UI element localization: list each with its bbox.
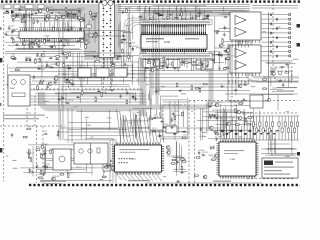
svg-text:4.7K: 4.7K [96, 58, 101, 60]
diode D13 [65, 79, 69, 81]
resistor R139 [121, 39, 123, 44]
svg-text:47u: 47u [44, 131, 47, 133]
capacitor C175 [134, 97, 136, 101]
capacitor C148 [191, 16, 193, 20]
bottom long bus 2 [60, 131, 190, 133]
IC201 pin name strip top [140, 20, 212, 25]
svg-text:4.7K560: 4.7K560 [172, 111, 180, 113]
left column wire [67, 108, 69, 143]
wire mesh QFP1 risers [120, 109, 156, 143]
transistor Q5 [77, 16, 81, 20]
wire mesh left IF 2 [61, 55, 145, 87]
capacitor C103 [12, 18, 14, 22]
capacitor C191 [42, 165, 46, 167]
resistor R219 [203, 83, 208, 85]
capacitor C189 [42, 172, 44, 176]
AGC part on shield 2 [89, 34, 94, 37]
capacitor C207 [209, 115, 211, 119]
svg-text:47u175: 47u175 [28, 153, 36, 155]
capacitor C186 [29, 168, 31, 172]
RGB resistor column cluster A [252, 116, 273, 140]
service note text 4 [264, 174, 290, 175]
IC201 bottom pin pads [142, 49, 206, 52]
wire mesh bottom left [20, 144, 112, 181]
diode D31 [173, 133, 177, 135]
IC301 inner text [224, 150, 244, 151]
capacitor C139 [70, 83, 74, 85]
CRT board dashed top step [234, 101, 236, 114]
resistor R138 [129, 42, 131, 47]
capacitor C205 [176, 180, 180, 182]
audio ladder wire [262, 14, 290, 16]
resistor R176 [42, 144, 44, 149]
capacitor C170 [223, 26, 225, 30]
capacitor C169 [216, 30, 218, 34]
svg-text:4.7K: 4.7K [80, 17, 85, 19]
transistor Q26 [203, 175, 207, 179]
nested bus trace [124, 18, 150, 62]
svg-text:10K500: 10K500 [271, 68, 279, 70]
resistor R200 [209, 114, 214, 116]
capacitor C150 [159, 13, 161, 17]
capacitor C132 [66, 67, 70, 69]
svg-text:IC301: IC301 [230, 159, 237, 161]
resistor R113 [79, 20, 84, 22]
svg-text:47u527: 47u527 [46, 7, 54, 9]
RGB bus bottom [252, 139, 299, 141]
main/CRT board dashed divider A [188, 101, 190, 184]
resistor R151 [184, 62, 189, 64]
capacitor C160 [151, 59, 155, 61]
reset IC box [150, 118, 163, 130]
transistor Q2 [61, 15, 65, 19]
resistor R214 [226, 58, 231, 60]
transistor Q4 [45, 18, 49, 22]
service note text 3 [264, 170, 282, 171]
resistor R181 [38, 177, 43, 179]
tuner antenna jack 2 [108, 1, 113, 6]
diode D18 [138, 16, 142, 18]
left vertical trunk 1 [58, 12, 60, 140]
resistor R148 [197, 64, 202, 66]
IC602 inner pins [232, 73, 259, 76]
service note text 2 [264, 167, 294, 168]
IC301 right wire 2 [261, 153, 297, 155]
resistor R110 [90, 10, 92, 15]
svg-text:2.2K: 2.2K [244, 82, 249, 84]
connector comb [40, 31, 54, 34]
capacitor C216 [243, 98, 245, 102]
IC601 inner pins [232, 40, 259, 43]
capacitor C176 [126, 91, 128, 95]
capacitor C123 [11, 30, 13, 34]
CRT board dashed divider B [194, 101, 196, 184]
audio dashed corner [273, 70, 293, 72]
IC201 top pin row [142, 24, 205, 34]
svg-text:SAW: SAW [10, 87, 15, 90]
resistor R195 [181, 161, 186, 163]
resistor R104 [47, 7, 49, 12]
capacitor C225 [243, 84, 247, 86]
svg-text:2.2K220: 2.2K220 [227, 56, 235, 58]
resistor R202 [194, 175, 199, 177]
bottom-right caption text [213, 181, 231, 182]
IC001 inner row of config dots 2 [119, 162, 128, 163]
top bus wire [118, 12, 250, 14]
transistor Q29 [227, 122, 231, 126]
resistor R149 [207, 61, 209, 66]
resistor R109 [92, 16, 94, 21]
resistor R122 [26, 59, 31, 61]
capacitor C201 [170, 126, 174, 128]
B+ bus wire [32, 80, 258, 82]
svg-text:10K674: 10K674 [131, 46, 139, 48]
diode D17 [154, 12, 158, 14]
resistor R136 [37, 85, 39, 90]
diode D25 [97, 90, 101, 92]
resistor R137 [126, 8, 128, 13]
svg-text:1K810: 1K810 [163, 124, 170, 126]
RGB array resistors dark [254, 130, 278, 134]
diode D19 [174, 17, 178, 19]
IC201 pin numbers top [142, 35, 205, 37]
svg-text:2.2K460: 2.2K460 [18, 7, 26, 9]
resistor R128 [63, 53, 68, 55]
transistor Q17 [48, 82, 52, 86]
capacitor C209 [215, 137, 217, 141]
IC101 body [19, 31, 84, 39]
resistor R208 [246, 123, 251, 125]
resistor R157 [154, 62, 156, 67]
resistor R127 [15, 69, 20, 71]
resistor R206 [235, 124, 240, 126]
resistor R203 [196, 157, 201, 159]
signal path rail (chroma) [156, 58, 159, 108]
resistor R119 [12, 38, 14, 43]
capacitor C174 [132, 95, 134, 99]
resistor R120 [44, 39, 46, 44]
svg-text:0.01874: 0.01874 [151, 67, 159, 69]
IC201 inner text smudge [146, 38, 199, 42]
resistor R185 [67, 173, 69, 178]
capacitor C109 [83, 18, 85, 22]
resistor R103 [56, 15, 58, 20]
main board dashed corner [163, 105, 188, 140]
signal list text row 1 [272, 87, 297, 88]
resistor R182 [28, 171, 33, 173]
diode D16 [205, 17, 209, 19]
svg-text:47u346: 47u346 [38, 66, 46, 68]
top bus wire [118, 10, 250, 12]
tuner shield shading [46, 4, 121, 60]
right edge terminal mark 1 [297, 24, 301, 28]
IC101 pin numbers [21, 31, 84, 32]
resistor R111 [33, 19, 35, 24]
resistor R207 [247, 117, 252, 119]
transistor Q25 [209, 126, 213, 130]
wire mesh left IF [6, 52, 145, 90]
resistor R150 [146, 62, 151, 64]
riser wire pair 3 [115, 140, 117, 183]
svg-text:10K763: 10K763 [196, 13, 204, 15]
tuner TU101 body [99, 3, 115, 58]
capacitor C203 [176, 160, 178, 164]
CRT board dashed top A [189, 100, 298, 102]
capacitor C114 [77, 10, 81, 12]
CRT socket box [250, 95, 263, 108]
transistor Q16 [54, 77, 58, 81]
resistor R156 [159, 67, 164, 69]
decoupling caps above IC301 [221, 130, 256, 135]
capacitor C118 [11, 29, 15, 31]
shield module Z101 box [74, 143, 108, 164]
diode D15 [160, 14, 164, 16]
diode D2 [30, 13, 34, 15]
IC001 bottom drop wires [117, 175, 162, 181]
transistor Q8 [80, 39, 84, 43]
capacitor C106 [20, 18, 24, 20]
svg-text:4.7K: 4.7K [209, 104, 214, 106]
bottom-left caption text 2 [44, 183, 62, 184]
capacitor C215 [198, 151, 200, 155]
diode D21 [201, 63, 205, 65]
capacitor C135 [46, 63, 48, 67]
transistor Q22 [166, 146, 170, 150]
svg-text:4.7K548: 4.7K548 [77, 38, 85, 40]
resistor R217 [191, 85, 193, 90]
tuner crossing wire 1 [85, 30, 126, 32]
resistor R197 [180, 159, 185, 161]
left vertical trunk 2 [62, 22, 64, 140]
capacitor C218 [278, 80, 282, 82]
IF output bus 4 [30, 104, 146, 106]
IC101 bottom pins [21, 39, 84, 42]
capacitor C210 [213, 114, 215, 118]
riser wire pair 2 [112, 140, 114, 183]
resistor R115 [93, 34, 98, 36]
svg-text:1K156: 1K156 [155, 89, 162, 91]
wire mesh top bus risers [138, 5, 224, 13]
svg-text:4.7K984: 4.7K984 [41, 144, 49, 146]
transistor Q12 [84, 41, 88, 45]
headphone jack parts [278, 71, 288, 75]
diode D32 [208, 106, 212, 108]
IC001 inner row of config dots [119, 158, 133, 159]
resistor R143 [176, 14, 181, 16]
CRT socket parts [267, 95, 278, 110]
annotation text speckle [6, 12, 299, 180]
svg-text:B+348: B+348 [40, 153, 47, 155]
capacitor C147 [122, 39, 126, 41]
capacitor C138 [37, 68, 41, 70]
diode D14 [122, 39, 126, 41]
IC001 top riser wires [117, 109, 164, 142]
resistor R144 [166, 17, 171, 19]
capacitor C115 [29, 42, 33, 44]
capacitor C128 [36, 52, 38, 56]
transistor Q11 [36, 42, 40, 46]
resistor R192 [174, 115, 176, 120]
resistor R213 [225, 58, 230, 60]
svg-text:100545: 100545 [43, 38, 51, 40]
wire mesh above IC301 [203, 99, 254, 139]
video delay box DL202 [196, 60, 213, 69]
capacitor C166 [166, 65, 168, 69]
capacitor C184 [57, 130, 59, 134]
signal path pipe (video bus) [42, 92, 146, 108]
resistor R123 [69, 52, 71, 57]
IC602 op-amp A [235, 49, 246, 58]
svg-text:2.2K: 2.2K [49, 149, 54, 151]
diode D24 [224, 16, 228, 18]
svg-text:0.01725: 0.01725 [77, 8, 85, 10]
capacitor C164 [199, 61, 203, 63]
capacitor C167 [218, 66, 220, 70]
IC301 top riser wires [221, 117, 253, 139]
ceramic filter CF202 box [96, 68, 109, 77]
capacitor C158 [217, 53, 221, 55]
capacitor C134 [12, 57, 16, 59]
svg-text:2.2K502: 2.2K502 [52, 176, 60, 178]
wire mesh right of IC301 [265, 130, 296, 155]
capacitor C197 [160, 120, 164, 122]
nested bus trace [128, 22, 150, 62]
transistor Q32 [226, 49, 230, 53]
capacitor C149 [157, 12, 159, 16]
svg-text:4.7K440: 4.7K440 [11, 29, 19, 31]
sync bus wire 1 [150, 83, 250, 85]
connector comb [66, 14, 77, 17]
resistor R146 [149, 18, 154, 20]
capacitor C152 [201, 18, 205, 20]
svg-text:1K933: 1K933 [171, 125, 178, 127]
left bus wire 2 [5, 53, 90, 55]
svg-text:47u383: 47u383 [215, 136, 223, 138]
Z101 inner coil 1 [79, 149, 83, 153]
IC201 top riser wires [140, 6, 204, 20]
capacitor C217 [280, 66, 284, 68]
wire mesh top-left A [5, 10, 95, 50]
diode D30 [44, 133, 48, 135]
audio enclosure left [227, 44, 229, 101]
capacitor C211 [215, 117, 219, 119]
capacitor C222 [221, 53, 223, 57]
capacitor C177 [110, 89, 114, 91]
transistor Q30 [238, 116, 242, 120]
resistor R166 [95, 97, 97, 102]
capacitor C156 [205, 65, 209, 67]
capacitor C145 [122, 34, 124, 38]
service note text 1 [275, 162, 293, 163]
capacitor C131 [61, 52, 65, 54]
input diode D101 [6, 10, 10, 14]
capacitor C112 [34, 12, 38, 14]
capacitor C165 [212, 58, 214, 62]
capacitor C140 [46, 85, 48, 89]
luma filter box FL201 [143, 60, 160, 68]
IC201 bottom drop wires [141, 58, 205, 71]
capacitor C173 [119, 94, 121, 98]
IF output bus 3 [30, 101, 146, 103]
resistor R165 [81, 90, 83, 95]
capacitor C102 [66, 13, 70, 15]
resistor R174 [40, 170, 42, 175]
audio enclosure bottom [228, 100, 269, 102]
capacitor C206 [200, 127, 202, 131]
mid vertical bus 1 [152, 16, 154, 95]
resistor R169 [128, 54, 130, 59]
transistor Q20 [219, 44, 223, 48]
resistor R117 [61, 39, 66, 41]
resistor R201 [214, 133, 219, 135]
svg-text:47u653: 47u653 [27, 126, 35, 128]
wire mesh tuner right [119, 9, 135, 58]
svg-text:4.7K527: 4.7K527 [103, 90, 111, 92]
capacitor C137 [25, 58, 27, 62]
audio amp IC601 box [230, 12, 261, 40]
capacitor C124 [49, 45, 53, 47]
capacitor C226 [178, 90, 182, 92]
capacitor C214 [210, 146, 212, 150]
resistor R126 [45, 66, 50, 68]
capacitor C221 [282, 83, 284, 87]
capacitor C130 [49, 66, 53, 68]
transistor Q13 [41, 53, 45, 57]
capacitor C153 [206, 14, 210, 16]
capacitor C178 [57, 98, 61, 100]
capacitor C120 [27, 43, 31, 45]
top bus wire [118, 6, 250, 8]
wire mesh audio area [215, 14, 250, 79]
capacitor C146 [132, 47, 134, 51]
signal path pipe (chroma riser) [146, 52, 211, 107]
diode D23 [223, 50, 227, 52]
ceramic filter CF201 box [78, 68, 91, 77]
IF section dashed horiz2 [0, 125, 65, 127]
resistor R198 [181, 166, 183, 171]
diode D27 [61, 97, 65, 99]
svg-text:IC001: IC001 [130, 159, 137, 161]
resistor R135 [38, 82, 43, 84]
resistor R211 [262, 88, 267, 90]
resistor R133 [39, 80, 44, 82]
resistor R199 [214, 115, 219, 117]
capacitor C212 [201, 154, 205, 156]
resistor R161 [223, 68, 228, 70]
riser wire pair 1 [109, 140, 111, 183]
board boundary dashed left [3, 8, 5, 181]
capacitor C121 [4, 33, 8, 35]
resistor R183 [59, 174, 64, 176]
resistor R188 [110, 160, 115, 162]
resistor R131 [10, 57, 15, 59]
transistor Q24 [215, 103, 219, 107]
CRT board dashed top B [235, 112, 298, 114]
signal path rail (luma) [149, 58, 152, 108]
diode D22 [145, 67, 149, 69]
capacitor C220 [270, 70, 274, 72]
svg-text:10K417: 10K417 [91, 14, 99, 16]
resistor R209 [245, 118, 247, 123]
resistor R189 [102, 176, 107, 178]
mid vertical bus 3 [158, 20, 160, 95]
svg-text:2.2K: 2.2K [183, 135, 188, 137]
right vertical bus 2 [235, 45, 237, 95]
transistor Q3 [46, 14, 50, 18]
capacitor C180 [124, 62, 126, 66]
power section dashed vert b [34, 96, 36, 126]
svg-text:10K691: 10K691 [25, 57, 33, 59]
